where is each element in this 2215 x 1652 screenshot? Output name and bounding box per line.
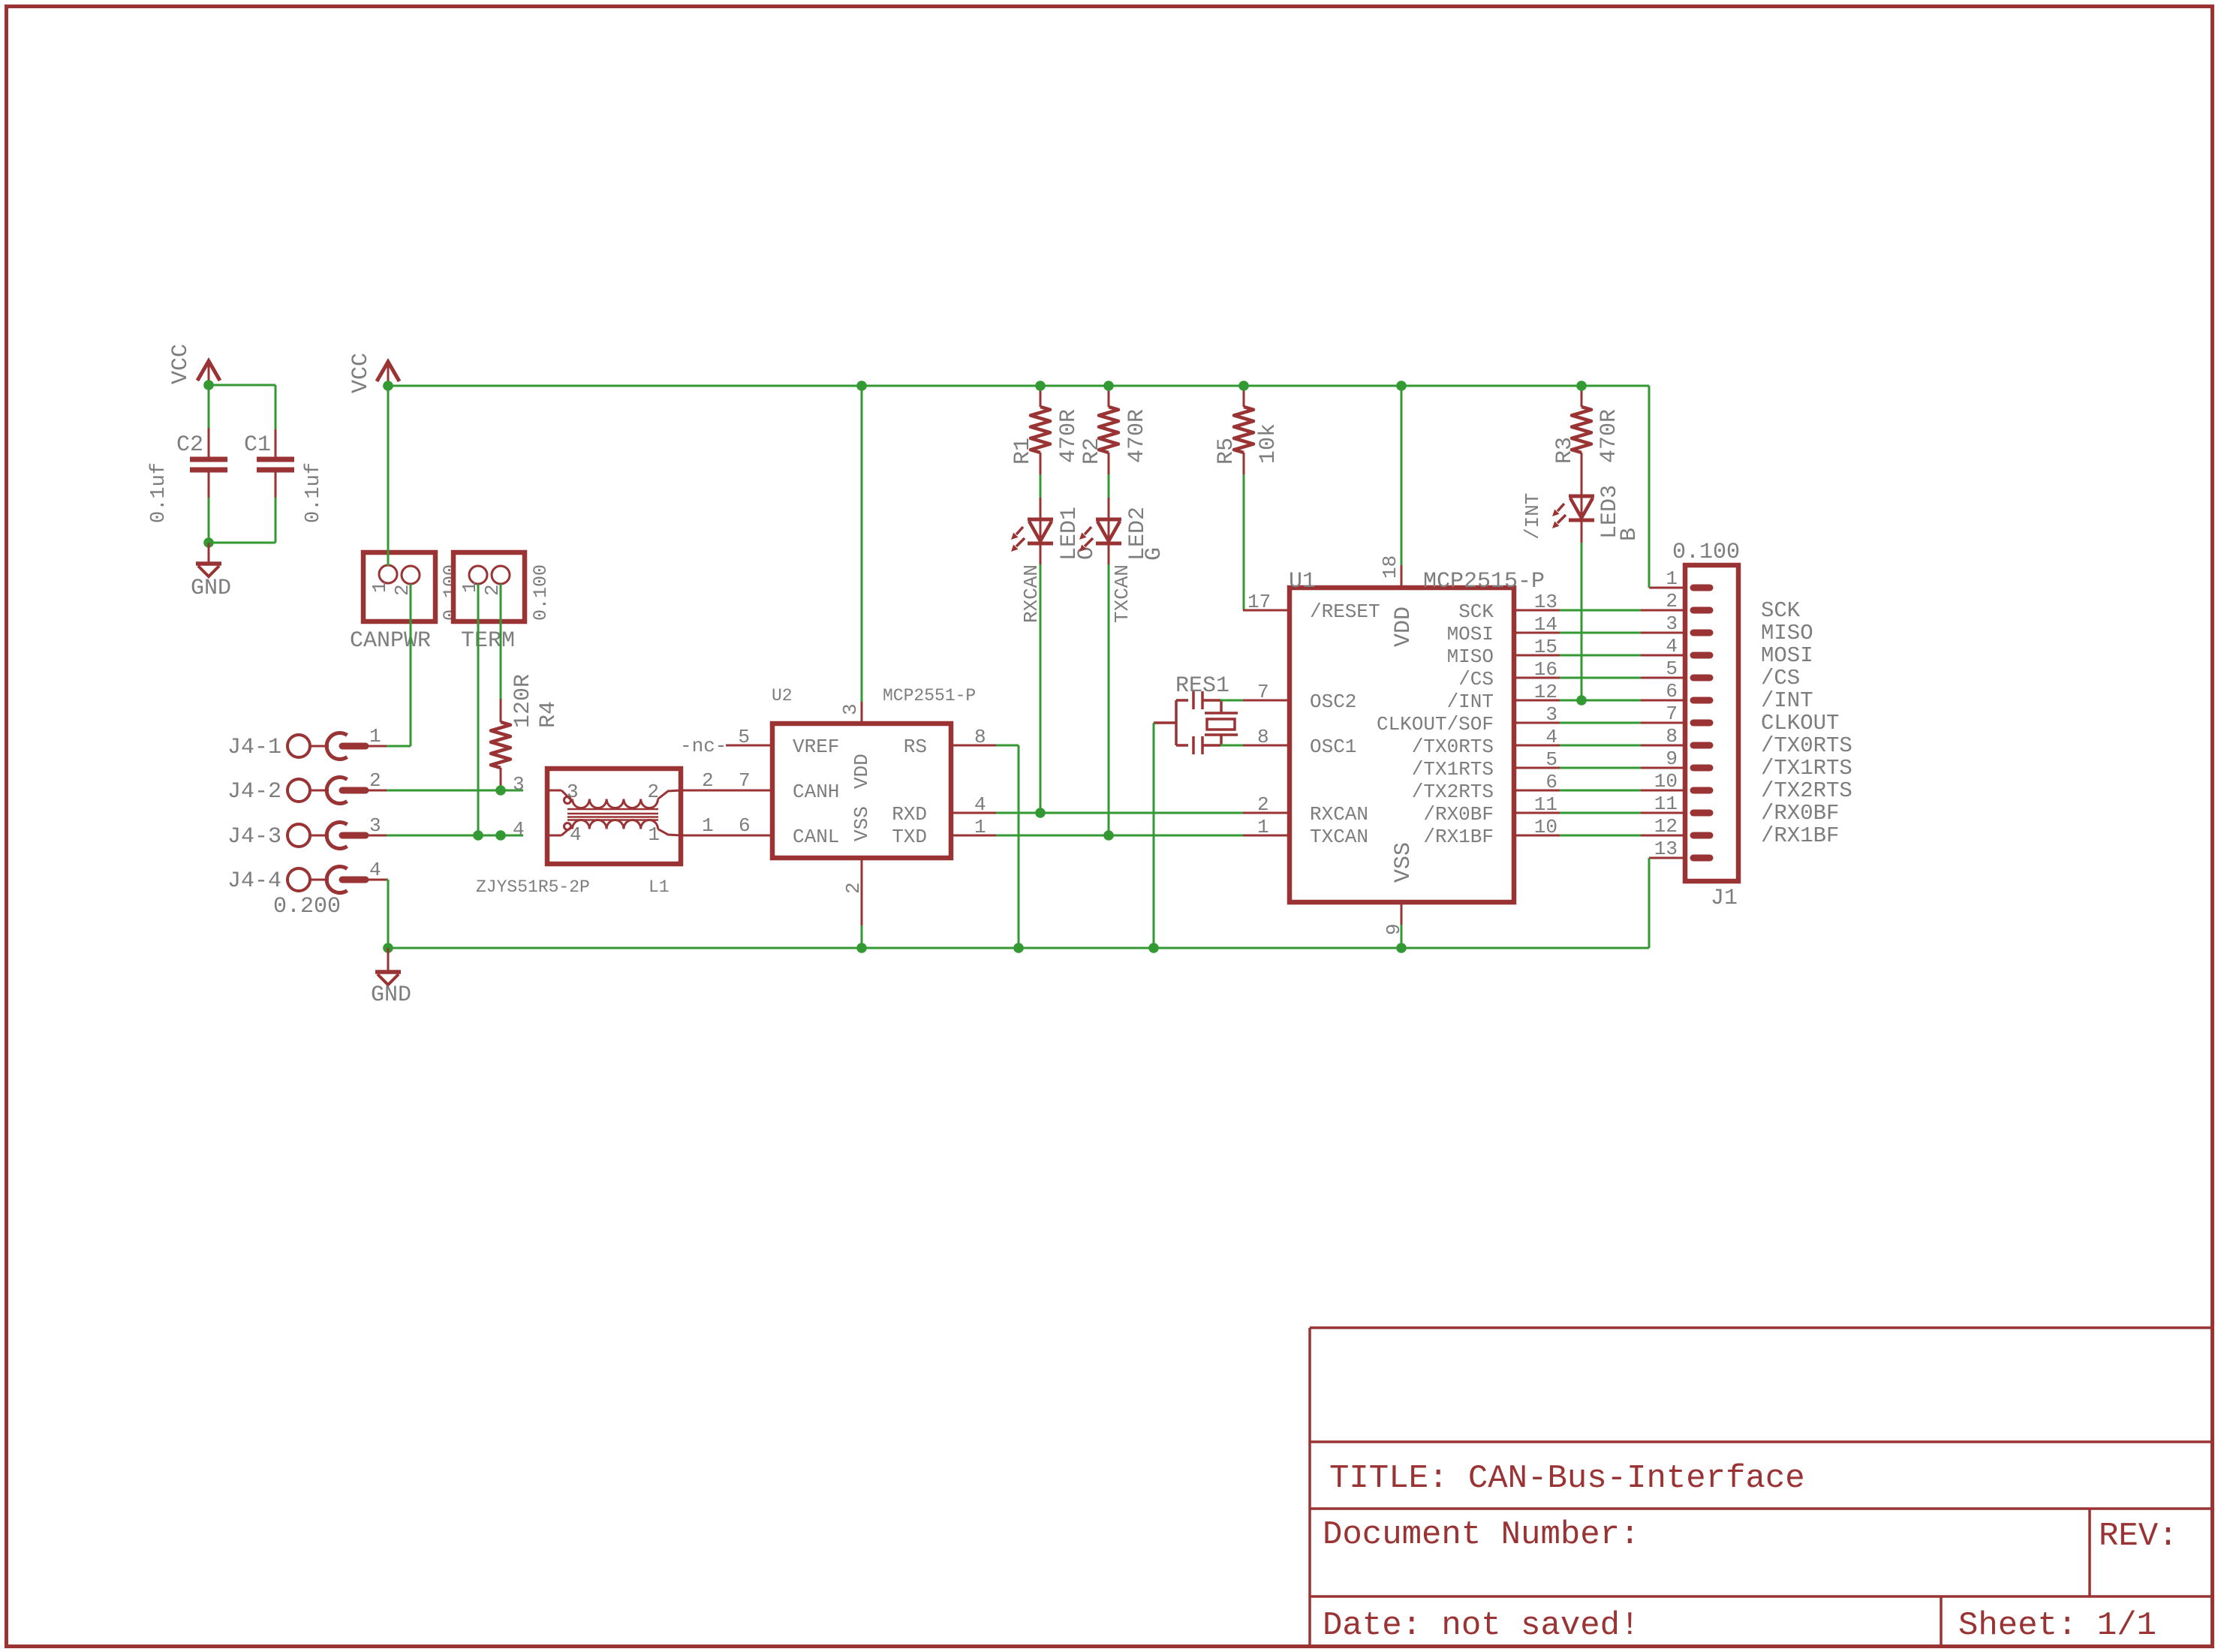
svg-text:MOSI: MOSI (1447, 623, 1494, 645)
svg-text:6: 6 (739, 814, 751, 837)
pin number 3 (J4) (369, 814, 381, 837)
junction LED1 at RXD net (1035, 808, 1046, 818)
svg-text:0.1uf: 0.1uf (302, 462, 325, 523)
pin 8 of J1 (stub+pad) (1641, 745, 1710, 747)
resistor R5 (1234, 386, 1253, 474)
svg-text:7: 7 (1666, 703, 1678, 725)
pin RXD stub (U2 pin4) (951, 812, 996, 814)
net label TXCAN (1111, 564, 1133, 623)
value 10k (R5) (1256, 423, 1281, 464)
label J4-1 (227, 735, 281, 760)
pin number 1 (U2 TXD) (974, 816, 986, 838)
pin /TX0RTS stub (U1 pin4) (1514, 745, 1560, 747)
junction at VCC main (383, 381, 393, 391)
resistor R4 (491, 699, 510, 790)
pin number 16 (U1 right) (1534, 658, 1557, 681)
junction ground at RES1 (1148, 943, 1159, 953)
wire VCC dot to C2 top (208, 385, 210, 428)
wire RES1 to U1 OSC1 (1220, 745, 1243, 747)
wire U1 pin3 to J1 (CLKOUT net) (1560, 722, 1641, 724)
svg-text:J4-4: J4-4 (227, 868, 281, 894)
svg-text:/RX1BF: /RX1BF (1423, 826, 1494, 848)
svg-text:RXD: RXD (892, 803, 927, 826)
label R3 (designator) (1552, 437, 1578, 464)
net label MOSI (J1) (1761, 643, 1813, 668)
pin number 6 (J1) (1666, 680, 1678, 703)
svg-text:TITLE: CAN-Bus-Interface: TITLE: CAN-Bus-Interface (1329, 1460, 1805, 1497)
svg-text:RXCAN: RXCAN (1310, 803, 1368, 826)
wire LED2 to TXD net (1108, 564, 1110, 835)
pin VSS stub (U2 pin2) (861, 858, 863, 925)
svg-text:TXCAN: TXCAN (1310, 826, 1368, 848)
svg-text:/RX0BF: /RX0BF (1423, 803, 1494, 826)
net label /RX1BF (J1) (1761, 823, 1839, 848)
svg-text:CANH: CANH (793, 781, 839, 803)
pin name OSC1 (U1) (1310, 736, 1356, 758)
pin name CANL (U2) (793, 826, 839, 848)
title text Document Number: (1323, 1516, 1639, 1554)
svg-text:3: 3 (567, 781, 579, 803)
svg-text:U1: U1 (1289, 569, 1316, 594)
svg-text:U2: U2 (772, 686, 793, 706)
svg-text:TXD: TXD (892, 826, 927, 848)
pin /INT stub (U1 pin12) (1514, 700, 1560, 702)
wire L1 pin2 to U2 CANH (681, 790, 772, 792)
pin 2 of J1 (stub+pad) (1641, 609, 1710, 612)
svg-text:2: 2 (1257, 793, 1269, 816)
title block frame (1310, 1328, 2213, 1647)
pin /RX1BF stub (U1 pin10) (1514, 835, 1560, 837)
pin VDD stub (U2 pin3) (861, 702, 863, 724)
value 0.200 (J4 spacing) (273, 894, 341, 919)
svg-text:8: 8 (1666, 725, 1678, 748)
pin number 2 (TERM) (481, 584, 504, 596)
pin 5 of J1 (stub+pad) (1641, 677, 1710, 679)
pin 1 of J1 (stub+pad) (1649, 587, 1710, 589)
svg-text:10k: 10k (1256, 423, 1281, 464)
svg-text:VDD: VDD (850, 754, 873, 789)
label RES1 (1175, 673, 1229, 699)
svg-text:6: 6 (1545, 771, 1557, 793)
svg-text:/TX1RTS: /TX1RTS (1412, 758, 1494, 781)
pin RXCAN stub (U1 pin2) (1243, 812, 1290, 814)
net label /INT (1521, 493, 1544, 540)
junction ground at U2 VSS (856, 943, 867, 953)
value ZJYS51R5-2P (L1) (476, 877, 590, 897)
value 0.1uf (C2) (148, 462, 170, 523)
pin number 3 (L1 outside) (513, 773, 525, 796)
label J4-2 (227, 779, 281, 805)
net label MISO (J1) (1761, 621, 1813, 645)
svg-text:REV:: REV: (2099, 1518, 2178, 1555)
label TERM (461, 628, 515, 654)
svg-text:L1: L1 (649, 877, 670, 897)
label LED3 (designator) (1597, 485, 1623, 539)
pin name TXCAN (U1) (1310, 826, 1368, 848)
pin number 2 (L1 right) (702, 769, 714, 792)
svg-text:R4: R4 (536, 701, 561, 728)
svg-text:/CS: /CS (1761, 666, 1800, 691)
wire VCC dot to C1 branch (209, 385, 275, 429)
wire U1 pin16 to J1 (/CS net) (1560, 677, 1641, 679)
pin name VDD (U1, vertical) (1391, 606, 1416, 647)
value B (LED3 blue) (1617, 528, 1642, 541)
label GND (C1/C2) (191, 576, 231, 601)
pin SCK stub (U1 pin13) (1514, 609, 1560, 612)
wire TERM pin1 to CANL row (477, 584, 480, 835)
svg-text:/RX1BF: /RX1BF (1761, 823, 1839, 848)
svg-text:1: 1 (1257, 816, 1269, 838)
svg-text:2: 2 (702, 769, 714, 792)
pin number 11 (J1) (1654, 793, 1678, 815)
svg-text:GND: GND (371, 982, 411, 1008)
pin number 10 (J1) (1654, 770, 1678, 793)
pin TXD stub (U2 pin1) (951, 835, 996, 837)
pin name 2 (L1 inside) (647, 781, 659, 803)
svg-text:J4-2: J4-2 (227, 779, 281, 805)
title text Sheet: 1/1 (1958, 1607, 2156, 1644)
junction LED2 at TXD net (1103, 830, 1114, 841)
net label /TX1RTS (J1) (1761, 756, 1852, 781)
wire U1 pin10 to J1 (/RX1BF net) (1560, 835, 1641, 837)
svg-text:/RESET: /RESET (1310, 600, 1380, 623)
wire RES1 to U1 OSC2 (1220, 700, 1243, 702)
net label /INT (J1) (1761, 688, 1813, 713)
pin number 13 (J1) (1654, 838, 1678, 860)
op-amp U2 (MCP2551-P transceiver) body (772, 724, 951, 858)
title text TITLE: CAN-Bus-Interface (1329, 1460, 1805, 1497)
resistor R1 (1031, 386, 1050, 474)
LED LED3 (1552, 496, 1594, 543)
wire TERM pin2 to R4 (500, 584, 502, 699)
label L1 (designator) (649, 877, 670, 897)
power symbol VCC (main rail) (377, 362, 399, 387)
svg-text:11: 11 (1534, 793, 1557, 816)
pin number 6 (U1 right) (1545, 771, 1557, 793)
pin number 1 (TERM) (459, 581, 481, 593)
inductor L1 (common-mode choke) (547, 769, 681, 864)
svg-text:RES1: RES1 (1175, 673, 1229, 699)
pin number 17 (U1) (1247, 591, 1271, 613)
svg-text:1: 1 (974, 816, 986, 838)
crystal RES1 (ceramic resonator) (1154, 691, 1238, 754)
wire VCC top bus (388, 385, 1649, 387)
svg-text:5: 5 (1666, 657, 1678, 680)
svg-text:TERM: TERM (461, 628, 515, 654)
svg-text:CLKOUT/SOF: CLKOUT/SOF (1377, 713, 1494, 736)
pin number 5 (U1 right) (1545, 748, 1557, 771)
connector pin J4-2 (287, 778, 387, 804)
svg-text:J1: J1 (1711, 886, 1738, 911)
ground symbol GND (C1/C2) (196, 543, 221, 576)
wire U1 pin11 to J1 (/RX0BF net) (1560, 812, 1641, 814)
svg-text:2: 2 (369, 769, 381, 792)
svg-text:0.100: 0.100 (1672, 540, 1740, 565)
svg-text:O: O (1074, 546, 1100, 560)
svg-text:4: 4 (1545, 726, 1557, 748)
LED LED2 (1079, 498, 1121, 564)
pin name /TX2RTS (U1) (1412, 781, 1494, 803)
svg-text:14: 14 (1534, 613, 1557, 636)
wire U1 pin15 to J1 (MOSI net) (1560, 654, 1641, 657)
svg-text:3: 3 (1545, 703, 1557, 726)
pin number 1 (J1) (1666, 567, 1678, 590)
pin name 1 (L1 inside) (648, 823, 660, 846)
svg-text:5: 5 (738, 726, 750, 748)
svg-text:120R: 120R (510, 674, 536, 728)
svg-text:-nc-: -nc- (680, 735, 727, 757)
svg-text:CLKOUT: CLKOUT (1761, 711, 1839, 736)
junction VCC at R3 (1576, 381, 1587, 391)
pin VREF stub (U2 pin5) (726, 745, 772, 747)
svg-text:/TX0RTS: /TX0RTS (1761, 733, 1852, 758)
pin number 1 (L1 right) (702, 814, 714, 837)
svg-text:470R: 470R (1124, 409, 1150, 463)
label C1 (244, 432, 271, 458)
pin number 2 (U2 VSS) (842, 882, 865, 894)
svg-text:18: 18 (1379, 555, 1401, 579)
svg-text:/TX0RTS: /TX0RTS (1412, 736, 1494, 758)
pin name MOSI (U1) (1447, 623, 1494, 645)
svg-text:3: 3 (369, 814, 381, 837)
junction VCC at R2 (1103, 381, 1114, 391)
label U2 (designator) (772, 686, 793, 706)
pin name RXD (U2) (892, 803, 927, 826)
svg-text:13: 13 (1534, 591, 1557, 613)
svg-text:VSS: VSS (850, 806, 873, 841)
pin number 4 (U2 RXD) (974, 793, 986, 816)
pin number 12 (J1) (1654, 815, 1678, 838)
label R5 (designator) (1214, 438, 1239, 465)
wire VCC bus to U1 VDD (1401, 386, 1403, 565)
op-amp U1 (MCP2515-P CAN controller) body (1290, 588, 1514, 902)
svg-text:C2: C2 (176, 432, 203, 458)
svg-text:470R: 470R (1056, 409, 1082, 463)
label LED2 (designator) (1125, 507, 1151, 561)
pin number 8 (U2 RS) (974, 726, 986, 748)
svg-text:SCK: SCK (1761, 598, 1801, 623)
wire R1 to LED1 (1040, 474, 1042, 498)
svg-text:5: 5 (1545, 748, 1557, 771)
svg-text:VSS: VSS (1391, 842, 1416, 883)
svg-text:15: 15 (1534, 636, 1557, 658)
power symbol VCC (C1/C2 rail) (197, 361, 220, 386)
pin number 4 (L1 outside) (513, 818, 525, 841)
svg-text:CANL: CANL (793, 826, 839, 848)
pin number 4 (J1) (1666, 635, 1678, 657)
svg-text:OSC2: OSC2 (1310, 691, 1356, 713)
wire RXD net (U2 to U1 RXCAN) (996, 812, 1243, 814)
connector pin J4-3 (287, 823, 387, 849)
svg-text:/TX1RTS: /TX1RTS (1761, 756, 1852, 781)
net label SCK (J1) (1761, 598, 1801, 623)
svg-text:G: G (1142, 547, 1167, 561)
svg-text:4: 4 (513, 818, 525, 841)
svg-text:10: 10 (1654, 770, 1678, 793)
junction VCC at U2 VDD (856, 381, 867, 391)
connector CANPWR (2-pin header) (363, 552, 435, 621)
value MCP2551-P (U2) (883, 686, 976, 706)
title text Date: not saved! (1323, 1607, 1639, 1644)
pin name 3 (L1 inside) (567, 781, 579, 803)
svg-text:Document Number:: Document Number: (1323, 1516, 1639, 1554)
svg-text:VDD: VDD (1391, 606, 1416, 647)
svg-text:Date: not saved!: Date: not saved! (1323, 1607, 1639, 1644)
wire U1 pin4 to J1 (/TX0RTS net) (1560, 745, 1641, 747)
pin name RXCAN (U1) (1310, 803, 1368, 826)
wire LED3 to /INT net (1581, 543, 1583, 700)
wire R2 to LED2 (1108, 474, 1110, 498)
junction R4 at CANH row (495, 785, 506, 796)
wire RS net to ground bus (996, 745, 1019, 948)
svg-text:TXCAN: TXCAN (1111, 564, 1133, 623)
svg-text:6: 6 (1666, 680, 1678, 703)
label LED1 (designator) (1057, 507, 1082, 561)
net label /RX0BF (J1) (1761, 801, 1839, 826)
pin number 3 (J1) (1666, 612, 1678, 635)
pin 13 of J1 (stub+pad) (1649, 857, 1710, 859)
pin 6 of J1 (stub+pad) (1641, 700, 1710, 702)
svg-text:OSC1: OSC1 (1310, 736, 1356, 758)
net label RXCAN (1020, 564, 1043, 623)
pin TXCAN stub (U1 pin1) (1243, 835, 1290, 837)
svg-text:J4-1: J4-1 (227, 735, 281, 760)
wire U1 pin6 to J1 (/TX2RTS net) (1560, 790, 1641, 792)
label VCC (main rail) (348, 353, 374, 393)
svg-text:0.100: 0.100 (530, 564, 552, 621)
svg-text:/TX2RTS: /TX2RTS (1761, 778, 1852, 803)
svg-text:CANPWR: CANPWR (350, 628, 431, 654)
value 0.1uf (C1) (302, 462, 325, 523)
pin number 3 (U2 VDD) (839, 703, 862, 715)
svg-text:GND: GND (191, 576, 231, 601)
junction LED3 at /INT net (1576, 695, 1587, 706)
pin VSS stub (U1 pin9) (1401, 902, 1403, 925)
pin number 5 (U2 VREF) (738, 726, 750, 748)
wire U2 VSS to ground bus (861, 925, 863, 948)
pin number 2 (J4) (369, 769, 381, 792)
label J4-4 (227, 868, 281, 894)
svg-text:0.1uf: 0.1uf (148, 462, 170, 523)
pin name TXD (U2) (892, 826, 927, 848)
svg-text:MOSI: MOSI (1761, 643, 1813, 668)
pin 10 of J1 (stub+pad) (1641, 790, 1710, 792)
wire C1 bottom to GND junction (209, 498, 275, 543)
svg-text:1: 1 (369, 725, 381, 748)
wire U1 pin5 to J1 (/TX1RTS net) (1560, 767, 1641, 769)
junction at VCC above C2 (203, 380, 214, 390)
pin /RESET stub (U1 pin17) (1243, 609, 1290, 612)
connector pin J4-1 (287, 733, 387, 760)
svg-text:1: 1 (702, 814, 714, 837)
pin name /TX1RTS (U1) (1412, 758, 1494, 781)
pin number 2 (J1) (1666, 590, 1678, 612)
svg-text:R2: R2 (1079, 438, 1105, 465)
pin number 7 (U1) (1257, 681, 1269, 703)
pin name /RX1BF (U1) (1423, 826, 1494, 848)
svg-text:/CS: /CS (1458, 668, 1494, 691)
wire ground bus to J1 pin13 (1648, 858, 1651, 948)
pin number 2 (CANPWR) (391, 584, 414, 596)
resistor R3 (1572, 386, 1591, 496)
pin MISO stub (U1 pin15) (1514, 654, 1560, 657)
svg-text:/TX2RTS: /TX2RTS (1412, 781, 1494, 803)
junction at CANL row (495, 830, 506, 841)
pin number 9 (J1) (1666, 748, 1678, 770)
pin number 4 (U1 right) (1545, 726, 1557, 748)
pin name /RX0BF (U1) (1423, 803, 1494, 826)
capacitor C2 (190, 428, 227, 498)
resistor R2 (1099, 386, 1118, 474)
junction VCC at R1 (1035, 381, 1046, 391)
pin 9 of J1 (stub+pad) (1641, 767, 1710, 769)
wire J4-2 to L1 pin3 (CANH net) (387, 790, 523, 792)
svg-text:MCP2515-P: MCP2515-P (1423, 569, 1545, 594)
svg-text:MISO: MISO (1447, 645, 1494, 668)
wire CANPWR pin2 to J4-1 (387, 584, 411, 746)
net label /TX2RTS (J1) (1761, 778, 1852, 803)
svg-text:MISO: MISO (1761, 621, 1813, 645)
label C2 (176, 432, 203, 458)
svg-text:B: B (1617, 528, 1642, 541)
capacitor C1 (257, 429, 294, 498)
pin name 4 (L1 inside) (570, 823, 582, 846)
pin /RX0BF stub (U1 pin11) (1514, 812, 1560, 814)
wire J4-4 to ground bus (387, 880, 388, 948)
wire LED1 to RXD net (1040, 564, 1042, 813)
value 470R (R2) (1124, 409, 1150, 463)
pin number 7 (U2 CANH) (739, 769, 751, 792)
connector J1 (13-pin header) body (1685, 565, 1738, 881)
junction at C1/C2 ground (203, 537, 214, 548)
svg-text:SCK: SCK (1458, 600, 1494, 623)
svg-text:2: 2 (647, 781, 659, 803)
value 0.100 (CANPWR) (440, 564, 462, 621)
connector TERM (2-pin header) (453, 552, 525, 621)
wire R5 to U1 /RESET (1243, 474, 1245, 610)
wire U1 pin14 to J1 (MISO net) (1560, 632, 1641, 634)
wire U1 pin12 to J1 (/INT net) (1560, 700, 1641, 702)
svg-text:/INT: /INT (1447, 691, 1494, 713)
label R1 (designator) (1010, 438, 1036, 465)
value 0.100 (J1 spacing) (1672, 540, 1740, 565)
label R4 (designator) (536, 701, 561, 728)
svg-text:12: 12 (1534, 681, 1557, 703)
pin name /INT (U1) (1447, 691, 1494, 713)
net label /CS (J1) (1761, 666, 1800, 691)
pin number 15 (U1 right) (1534, 636, 1557, 658)
net label -nc- (VREF) (680, 735, 727, 757)
pin number 18 (U1 VDD) (1379, 555, 1401, 579)
wire TXD net (U2 to U1 TXCAN) (996, 835, 1243, 837)
label U1 (designator) (1289, 569, 1316, 594)
svg-text:4: 4 (974, 793, 986, 816)
pin number 2 (U1) (1257, 793, 1269, 816)
pin CLKOUT/SOF stub (U1 pin3) (1514, 722, 1560, 724)
pin number 8 (J1) (1666, 725, 1678, 748)
svg-text:7: 7 (1257, 681, 1269, 703)
svg-text:1: 1 (369, 581, 391, 593)
net label CLKOUT (J1) (1761, 711, 1839, 736)
pin number 9 (U1 VSS) (1383, 923, 1405, 935)
junction VCC at R5 (1238, 381, 1249, 391)
pin 11 of J1 (stub+pad) (1641, 812, 1710, 814)
svg-text:3: 3 (839, 703, 862, 715)
svg-text:Sheet: 1/1: Sheet: 1/1 (1958, 1607, 2156, 1644)
svg-text:MCP2551-P: MCP2551-P (883, 686, 976, 706)
wire C2 bottom to GND junction (208, 498, 210, 543)
svg-text:R5: R5 (1214, 438, 1239, 465)
